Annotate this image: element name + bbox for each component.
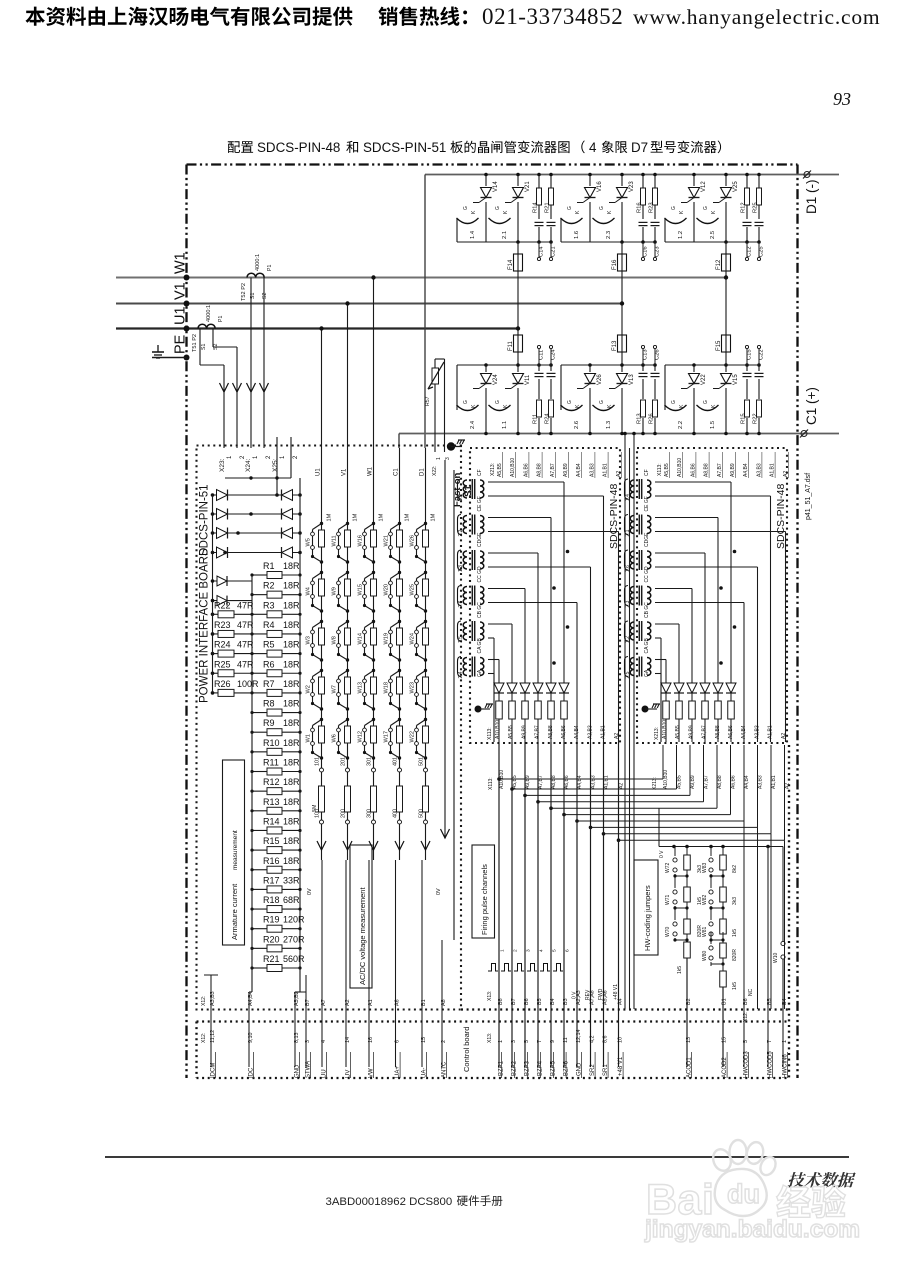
svg-text:A7: A7: [321, 999, 327, 1006]
svg-text:18R: 18R: [283, 679, 300, 689]
fast-on S1 ground: [447, 442, 455, 450]
jumper W10: [782, 847, 784, 942]
svg-text:A1,B1: A1,B1: [771, 775, 777, 789]
svg-text:Armature current: Armature current: [230, 883, 239, 940]
divider resistor W26 1M: [424, 522, 427, 525]
svg-text:CE GF: CE GF: [477, 496, 483, 511]
svg-text:A10,B10: A10,B10: [677, 458, 683, 477]
snubber capacitor C22: [758, 365, 760, 434]
svg-text:3: 3: [526, 949, 532, 952]
no-connect symbol on D1: [804, 172, 810, 178]
svg-text:W6: W6: [332, 734, 338, 742]
svg-text:5M: 5M: [312, 804, 318, 812]
svg-text:14: 14: [345, 1037, 351, 1043]
diode D1: [498, 660, 500, 743]
tap 401: [398, 768, 402, 772]
svg-text:560R: 560R: [283, 954, 305, 964]
thyristor V26: [589, 365, 591, 434]
svg-text:2: 2: [441, 1040, 447, 1043]
svg-text:021-33734852: 021-33734852: [482, 4, 623, 29]
svg-text:GA: GA: [644, 669, 650, 677]
svg-text:CE GF: CE GF: [644, 496, 650, 511]
board box SDCS-PIN-51: [197, 446, 462, 1010]
svg-text:CF: CF: [477, 469, 483, 476]
svg-text:A8,B8: A8,B8: [537, 463, 543, 477]
svg-text:A5,B5: A5,B5: [497, 463, 503, 477]
svg-text:270R: 270R: [283, 934, 305, 944]
pulse transformer 1.2: [630, 622, 634, 640]
secondary wire to suppressor column: [488, 659, 499, 661]
svg-text:18R: 18R: [283, 640, 300, 650]
svg-text:B6: B6: [524, 998, 530, 1005]
fuse F16: [621, 242, 623, 365]
svg-text:2.4: 2.4: [470, 420, 476, 429]
svg-text:18R: 18R: [283, 738, 300, 748]
thyristor V15: [725, 365, 727, 434]
svg-text:1.1: 1.1: [502, 421, 508, 429]
diode D4: [537, 553, 539, 742]
wire X213 pin 3: [689, 745, 691, 795]
divider resistor W12 1M: [372, 718, 375, 721]
current transformer T51: [198, 324, 215, 328]
diode array rails: [212, 495, 214, 601]
svg-text:W16: W16: [358, 535, 364, 547]
svg-text:SDCS-PIN-51: SDCS-PIN-51: [199, 484, 211, 556]
svg-text:3ABD00018962 DCS800: 3ABD00018962 DCS800: [326, 1196, 453, 1208]
svg-text:K: K: [503, 210, 509, 214]
svg-text:A6: A6: [395, 999, 401, 1006]
svg-text:V23: V23: [629, 181, 635, 192]
wire +48 V1: [618, 742, 620, 1067]
wire GND: [294, 1009, 296, 1067]
svg-text:R11: R11: [263, 758, 279, 768]
snubber resistor R21: [550, 175, 552, 243]
svg-text:R1: R1: [263, 561, 275, 571]
crossing junction dots: [733, 550, 737, 554]
svg-text:SDCS-PIN-48: SDCS-PIN-48: [257, 140, 340, 155]
svg-text:R15: R15: [741, 413, 747, 424]
svg-text:U1: U1: [316, 468, 322, 476]
snubber capacitor C13: [642, 365, 644, 434]
tap 101: [320, 768, 324, 772]
svg-text:R14: R14: [263, 816, 280, 826]
svg-text:68R: 68R: [283, 895, 300, 905]
svg-text:3: 3: [445, 457, 451, 460]
fuse F12: [725, 242, 727, 365]
test rings: [642, 242, 644, 257]
svg-text:A2: A2: [781, 733, 787, 739]
svg-text:V26: V26: [597, 374, 603, 385]
svg-text:1.3: 1.3: [606, 421, 612, 429]
tap 500: [424, 820, 428, 824]
module top rail: [561, 364, 655, 366]
svg-text:A1: A1: [368, 999, 374, 1006]
svg-text:X113:: X113:: [488, 777, 494, 790]
crossing junction dots: [566, 550, 570, 554]
svg-text:A9,B9: A9,B9: [688, 725, 694, 739]
test rings: [538, 349, 540, 365]
test rings: [746, 349, 748, 365]
svg-text:www.hanyangelectric.com: www.hanyangelectric.com: [633, 5, 880, 29]
pulse transformer 2.6: [463, 587, 467, 605]
svg-text:V12: V12: [701, 181, 707, 192]
svg-text:R10: R10: [263, 738, 280, 748]
svg-text:A3,B3: A3,B3: [756, 463, 762, 477]
W80 elbow: [710, 962, 712, 966]
svg-text:R5: R5: [263, 640, 275, 650]
svg-text:R25: R25: [753, 202, 759, 213]
svg-text:W14: W14: [358, 633, 364, 645]
svg-text:200: 200: [341, 809, 347, 818]
svg-text:C1 (+): C1 (+): [804, 387, 819, 425]
svg-text:6: 6: [395, 1040, 401, 1043]
svg-text:1.2: 1.2: [625, 636, 631, 643]
svg-text:V14: V14: [493, 181, 499, 192]
pulse glyph: [540, 964, 550, 972]
svg-text:G: G: [671, 206, 677, 210]
svg-text:5: 5: [524, 1040, 530, 1043]
test rings: [746, 242, 748, 257]
snubber capacitor C25: [754, 219, 764, 227]
svg-text:FWD: FWD: [598, 988, 604, 1000]
diode D1: [665, 660, 667, 743]
svg-text:2.4: 2.4: [458, 671, 464, 678]
svg-text:1.6: 1.6: [574, 231, 580, 239]
svg-text:A2: A2: [619, 783, 625, 789]
svg-text:G: G: [599, 206, 605, 210]
svg-text:1M: 1M: [405, 513, 411, 521]
svg-text:A6,B6: A6,B6: [564, 775, 570, 789]
svg-text:CB GC: CB GC: [644, 602, 650, 618]
svg-text:1M: 1M: [327, 513, 333, 521]
svg-text:W1: W1: [306, 734, 312, 742]
current transformer T52: [247, 273, 264, 277]
divider resistor 5M: [319, 786, 325, 812]
svg-text:18R: 18R: [283, 758, 300, 768]
svg-text:SDCS-PIN-51: SDCS-PIN-51: [363, 140, 446, 155]
svg-text:G: G: [495, 400, 501, 404]
svg-text:A9,B9: A9,B9: [730, 463, 736, 477]
module top rail: [665, 364, 759, 366]
diode D2: [511, 624, 513, 742]
svg-text:820R: 820R: [732, 949, 738, 961]
boards bottom dotted separator: [461, 1008, 789, 1010]
svg-text:A3,B3: A3,B3: [210, 991, 216, 1006]
svg-text:1.4: 1.4: [625, 494, 631, 501]
svg-text:K: K: [607, 210, 613, 214]
svg-text:A3,B3: A3,B3: [589, 463, 595, 477]
svg-text:A9,B9: A9,B9: [521, 725, 527, 739]
connector name underline ticks: [215, 1052, 217, 1078]
svg-text:V24: V24: [493, 374, 499, 385]
svg-text:W26: W26: [410, 535, 416, 547]
svg-text:A6,B6: A6,B6: [523, 463, 529, 477]
svg-text:W80: W80: [702, 951, 708, 962]
svg-text:R8: R8: [263, 699, 275, 709]
wire BZP5: [550, 742, 552, 1067]
divider resistor W13 1M: [372, 669, 375, 672]
secondary return wire: [488, 495, 604, 497]
top interconnect jog: [225, 477, 291, 479]
svg-text:G: G: [599, 400, 605, 404]
fuse F13: [618, 335, 627, 352]
diode D2: [678, 624, 680, 742]
module top rail: [457, 364, 551, 366]
svg-text:1.1: 1.1: [458, 494, 464, 501]
clamp diode row 2: [213, 513, 301, 515]
svg-text:15: 15: [722, 1037, 728, 1043]
svg-text:B1: B1: [722, 998, 728, 1005]
divider column V1: [347, 304, 349, 861]
snubber capacitor C15: [746, 365, 748, 434]
svg-text:W24: W24: [410, 633, 416, 645]
svg-text:V21: V21: [525, 181, 531, 192]
svg-text:Firing pulse channels: Firing pulse channels: [480, 864, 489, 935]
node: buses crossing frame: [184, 275, 190, 281]
svg-text:A2: A2: [783, 471, 789, 477]
tap 300: [372, 820, 376, 824]
svg-text:820R: 820R: [697, 925, 703, 937]
svg-text:V25: V25: [733, 181, 739, 192]
svg-text:120R: 120R: [283, 915, 305, 925]
svg-text:W5: W5: [306, 538, 312, 546]
svg-text:R12: R12: [741, 202, 747, 213]
wire BZP3: [524, 742, 526, 1067]
clamp diode row 1: [213, 494, 301, 496]
snubber resistor R16: [642, 175, 644, 243]
svg-text:R22: R22: [753, 413, 759, 424]
resistor RD6: [728, 701, 735, 719]
svg-text:W21: W21: [384, 535, 390, 547]
row ties column 1: [675, 875, 687, 877]
svg-text:A5,B5: A5,B5: [664, 463, 670, 477]
pulse transformer 2.2: [463, 516, 467, 534]
wire IDCM: [210, 975, 212, 1067]
X25 pin wires into board: [276, 437, 278, 495]
svg-text:1M: 1M: [353, 513, 359, 521]
diode D4: [704, 553, 706, 742]
svg-text:V11: V11: [525, 374, 531, 385]
svg-text:G: G: [703, 400, 709, 404]
diode D5: [550, 518, 552, 743]
thyristor V16: [589, 175, 591, 243]
divider resistor W14 1M: [372, 620, 375, 623]
svg-text:K: K: [679, 210, 685, 214]
svg-text:A4,B4: A4,B4: [574, 725, 580, 739]
svg-text:A6,B6: A6,B6: [728, 725, 734, 739]
secondary wire to suppressor column: [488, 517, 551, 519]
svg-text:V15: V15: [733, 374, 739, 385]
wire X213 pin 8: [757, 745, 759, 827]
jumper W83: [710, 847, 712, 857]
node: phase tap: [620, 301, 624, 305]
baidu watermark: Bai: [644, 1176, 860, 1243]
svg-text:16: 16: [368, 1037, 374, 1043]
svg-text:1: 1: [436, 457, 442, 460]
svg-text:F15: F15: [716, 340, 722, 351]
divider resistor W16 1M: [372, 522, 375, 525]
varistor R57: [432, 368, 439, 384]
svg-text:X113:: X113:: [657, 463, 663, 476]
resistor RD2: [509, 701, 516, 719]
arrow to 0V: [343, 841, 352, 850]
thyristor V24: [485, 365, 487, 434]
divider resistor W5 1M: [320, 522, 323, 525]
divider column C1: [399, 448, 401, 860]
svg-text:R16: R16: [637, 202, 643, 213]
snubber capacitor C23: [650, 219, 660, 227]
svg-text:1k5: 1k5: [732, 929, 738, 937]
svg-text:X12:: X12:: [201, 1033, 207, 1043]
svg-text:F11: F11: [508, 340, 514, 351]
stubs HWCOD3 HWCOD5: [743, 990, 745, 1067]
svg-text:8,13: 8,13: [294, 1033, 300, 1044]
secondary wire to suppressor column: [488, 588, 525, 590]
svg-text:REV: REV: [585, 989, 591, 1000]
resistor RD4: [535, 701, 542, 719]
wire VW: [368, 860, 370, 1067]
svg-text:8k2: 8k2: [732, 865, 738, 873]
svg-text:CC GD: CC GD: [644, 566, 650, 583]
divider resistor W15 1M: [372, 571, 375, 574]
svg-text:A7,B7: A7,B7: [538, 775, 544, 789]
svg-text:BZP6: BZP6: [564, 1060, 570, 1076]
svg-text:W12: W12: [358, 731, 364, 743]
wire BZP4: [537, 742, 539, 1067]
divider resistor W23 1M: [424, 669, 427, 672]
svg-text:1: 1: [782, 1040, 788, 1043]
clamp diode row 3: [213, 532, 301, 534]
internal ground: [642, 706, 649, 713]
svg-text:R19: R19: [263, 915, 280, 925]
svg-text:A9,B9: A9,B9: [563, 463, 569, 477]
secondary return wire: [655, 602, 744, 604]
svg-text:P1: P1: [267, 265, 273, 271]
svg-text:D7: D7: [631, 140, 648, 155]
snubber resistor R24: [548, 399, 554, 418]
svg-text:A9,B9: A9,B9: [525, 775, 531, 789]
svg-text:CDGE: CDGE: [644, 532, 650, 547]
svg-text:R13: R13: [637, 413, 643, 424]
svg-text:W11: W11: [332, 535, 338, 546]
svg-text:POWER INTERFACE BOARD: POWER INTERFACE BOARD: [199, 548, 211, 703]
svg-text:W23: W23: [410, 682, 416, 694]
svg-text:D1 (-): D1 (-): [804, 180, 819, 215]
svg-text:A1,B1: A1,B1: [604, 775, 610, 789]
wire UA+: [395, 860, 397, 1067]
svg-text:R4: R4: [263, 620, 275, 630]
snubber resistor R22: [756, 399, 762, 418]
svg-text:501: 501: [419, 757, 425, 766]
test rings: [642, 349, 644, 365]
svg-text:K: K: [575, 210, 581, 214]
svg-text:5: 5: [743, 1040, 749, 1043]
svg-text:4: 4: [539, 949, 545, 952]
divider column D1: [425, 448, 427, 860]
svg-text:W71: W71: [665, 895, 671, 906]
svg-text:W2: W2: [306, 685, 312, 693]
svg-text:A1,B1: A1,B1: [768, 725, 774, 739]
svg-text:R23: R23: [214, 620, 231, 630]
svg-text:AC/DC voltage measurement: AC/DC voltage measurement: [358, 887, 367, 985]
coding resistor: [686, 908, 688, 919]
svg-text:B7: B7: [305, 999, 311, 1006]
thyristor V21: [517, 175, 519, 243]
svg-text:G: G: [567, 400, 573, 404]
svg-text:R2: R2: [263, 581, 275, 591]
svg-text:G: G: [703, 206, 709, 210]
coding resistor 820R: [722, 932, 724, 943]
svg-text:18R: 18R: [283, 718, 300, 728]
svg-text:HW-coding jumpers: HW-coding jumpers: [643, 885, 652, 951]
fuse F11: [514, 335, 523, 352]
jumper W81: [710, 908, 712, 920]
box: Firing pulse channels: [472, 845, 495, 938]
secondary wire to suppressor column: [488, 623, 512, 625]
snubber capacitor C24: [550, 365, 552, 434]
wire X213 pin 5: [716, 745, 718, 808]
pulse transformer 1.1: [463, 480, 467, 498]
svg-text:R23: R23: [649, 202, 655, 213]
divider resistor 5M: [423, 786, 429, 812]
divider resistor W7 1M: [346, 669, 349, 672]
secondary return wire: [488, 637, 494, 639]
snubber resistor R23: [654, 175, 656, 243]
svg-text:2.3: 2.3: [606, 231, 612, 239]
divider resistor W1 1M: [320, 718, 323, 721]
svg-text:A8,B8: A8,B8: [704, 463, 710, 477]
svg-text:B7: B7: [511, 998, 517, 1005]
svg-text:F12: F12: [716, 259, 722, 270]
secondary return wire: [488, 566, 591, 568]
pulse transformer 2.3: [630, 587, 634, 605]
snubber capacitor C12: [742, 219, 752, 227]
svg-text:0V: 0V: [307, 888, 313, 895]
svg-text:2.2: 2.2: [678, 421, 684, 429]
svg-text:G: G: [495, 206, 501, 210]
resistor RD3: [522, 701, 529, 719]
svg-text:R13: R13: [263, 797, 280, 807]
svg-text:K: K: [471, 210, 477, 214]
inter-board bus wires: [624, 434, 626, 1010]
svg-text:R6: R6: [263, 659, 275, 669]
svg-text:1.2: 1.2: [678, 231, 684, 239]
diode D3: [691, 589, 693, 743]
svg-text:0 V: 0 V: [572, 991, 578, 999]
svg-text:X25:: X25:: [272, 458, 279, 472]
svg-text:A8,B8: A8,B8: [551, 775, 557, 789]
svg-text:1: 1: [253, 455, 259, 459]
thyristor V14: [485, 175, 487, 243]
svg-text:A4,B4: A4,B4: [248, 991, 254, 1006]
svg-text:A5,B5: A5,B5: [675, 725, 681, 739]
resistor 1k5 (series to ACOD1): [684, 942, 691, 958]
svg-text:A4,B4: A4,B4: [743, 463, 749, 477]
snubber capacitor C26: [654, 365, 656, 434]
control board dotted separator (bottom): [197, 1077, 790, 1079]
divider resistor W11 1M: [346, 522, 349, 525]
svg-text:13: 13: [686, 1037, 692, 1043]
svg-text:A2: A2: [616, 471, 622, 477]
svg-text:B2: B2: [686, 998, 692, 1005]
svg-text:A4,B4: A4,B4: [577, 775, 583, 789]
wire BZP1: [498, 742, 500, 1067]
divider column W1: [373, 278, 375, 861]
board box SDCS-PIN-48: [637, 448, 787, 743]
wire BZP6: [563, 742, 565, 1067]
svg-text:W1: W1: [173, 252, 189, 274]
header line: company info: [26, 7, 353, 26]
